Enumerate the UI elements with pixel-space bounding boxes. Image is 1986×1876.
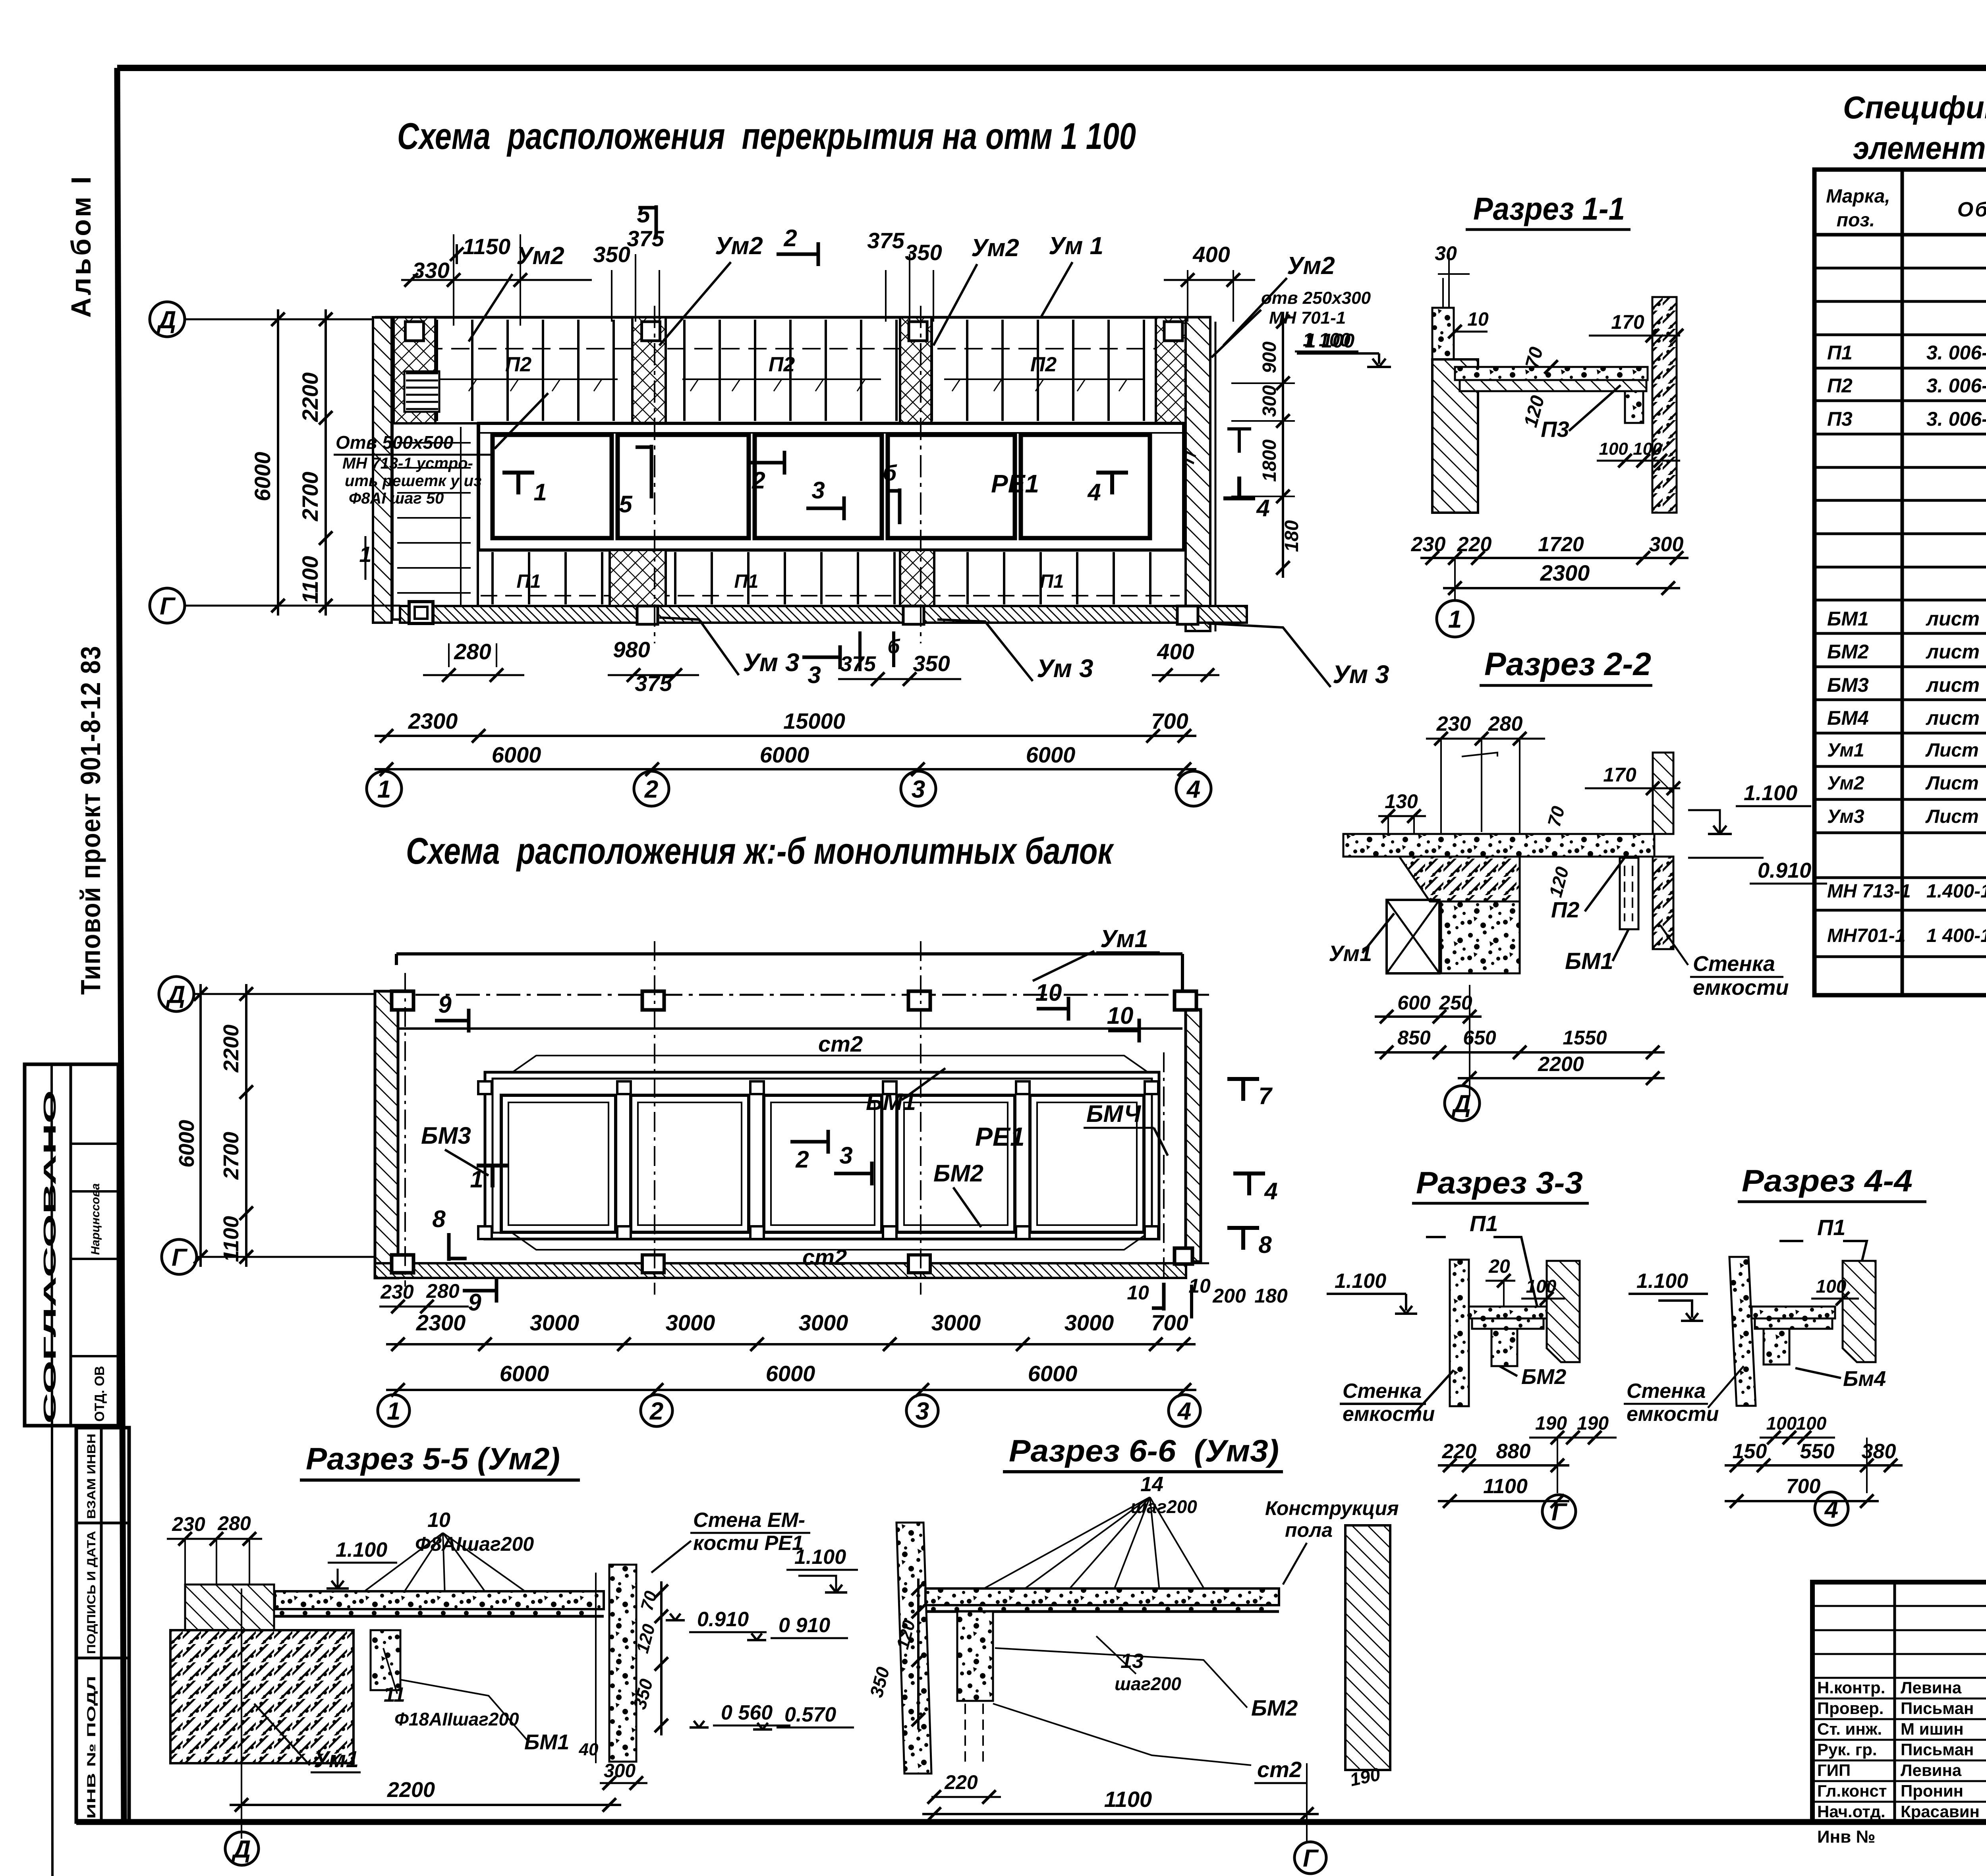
svg-text:Д: Д: [156, 306, 176, 334]
svg-text:180: 180: [1281, 520, 1302, 552]
svg-text:пола: пола: [1285, 1519, 1333, 1541]
svg-text:2700: 2700: [219, 1132, 243, 1180]
svg-text:350: 350: [905, 240, 942, 265]
svg-text:280: 280: [426, 1280, 460, 1302]
svg-text:14: 14: [1140, 1473, 1163, 1496]
svg-text:6000: 6000: [250, 452, 275, 502]
svg-text:емкости: емкости: [1693, 976, 1789, 1000]
svg-text:5: 5: [619, 491, 633, 517]
svg-text:БМ2: БМ2: [1521, 1365, 1566, 1389]
svg-text:Разрез 3-3: Разрез 3-3: [1416, 1165, 1583, 1200]
svg-text:ить решетк у из: ить решетк у из: [345, 472, 482, 490]
svg-text:10: 10: [1107, 1002, 1134, 1029]
svg-text:П2: П2: [769, 353, 795, 376]
svg-text:Г: Г: [160, 593, 176, 620]
svg-text:1.400-15, Вып.1.710- 24: 1.400-15, Вып.1.710- 24: [1926, 881, 1986, 902]
svg-text:П1: П1: [1039, 571, 1064, 592]
svg-text:150: 150: [1733, 1440, 1767, 1463]
svg-text:980: 980: [613, 637, 650, 662]
svg-text:8: 8: [432, 1206, 446, 1232]
svg-text:лист 47: лист 47: [1926, 641, 1986, 663]
svg-text:6000: 6000: [760, 742, 809, 767]
svg-text:2300: 2300: [408, 708, 458, 733]
svg-text:230: 230: [172, 1513, 205, 1535]
svg-text:375: 375: [840, 652, 876, 676]
svg-text:1100: 1100: [1104, 1787, 1152, 1812]
svg-text:300: 300: [1259, 385, 1280, 417]
svg-text:1800: 1800: [1259, 439, 1280, 482]
svg-text:2300: 2300: [416, 1310, 466, 1335]
svg-text:поз.: поз.: [1837, 210, 1875, 231]
svg-text:850: 850: [1397, 1027, 1431, 1049]
svg-text:Рук. гр.: Рук. гр.: [1817, 1740, 1877, 1759]
svg-text:1.100: 1.100: [794, 1546, 846, 1569]
svg-text:5: 5: [637, 201, 651, 228]
svg-text:Письман: Письман: [1901, 1740, 1974, 1759]
svg-text:БМ1: БМ1: [866, 1089, 916, 1115]
svg-text:300: 300: [1649, 533, 1684, 556]
svg-text:МН 713-1 устро-: МН 713-1 устро-: [342, 455, 473, 472]
svg-text:П1: П1: [734, 571, 758, 592]
svg-text:БМ4: БМ4: [1827, 707, 1869, 729]
svg-text:БМ2: БМ2: [933, 1160, 983, 1187]
svg-text:Бм4: Бм4: [1843, 1367, 1886, 1391]
svg-text:Стенка: Стенка: [1343, 1380, 1422, 1403]
svg-text:БМ3: БМ3: [1827, 674, 1869, 696]
svg-text:Ум3: Ум3: [1827, 806, 1864, 827]
svg-text:Ум1: Ум1: [1100, 925, 1148, 953]
svg-text:б: б: [883, 460, 897, 485]
svg-text:П1: П1: [1817, 1215, 1845, 1240]
svg-text:0 910: 0 910: [779, 1614, 830, 1637]
svg-text:3000: 3000: [666, 1310, 715, 1335]
svg-text:6000: 6000: [175, 1120, 199, 1168]
svg-text:Обозначение: Обозначение: [1957, 198, 1986, 221]
svg-text:ВЗАМ ИНВН: ВЗАМ ИНВН: [85, 1434, 98, 1519]
svg-text:220: 220: [1457, 533, 1492, 556]
svg-text:Ум2: Ум2: [715, 232, 763, 260]
svg-text:8: 8: [1258, 1231, 1272, 1258]
svg-text:4: 4: [1264, 1178, 1277, 1204]
svg-text:Пронин: Пронин: [1901, 1781, 1963, 1800]
svg-text:170: 170: [1611, 311, 1644, 333]
svg-text:Ум2: Ум2: [1287, 252, 1335, 280]
svg-text:130: 130: [1385, 790, 1418, 813]
svg-text:1550: 1550: [1563, 1027, 1607, 1049]
svg-text:2200: 2200: [219, 1025, 243, 1073]
svg-text:ГИП: ГИП: [1817, 1761, 1851, 1779]
svg-text:6000: 6000: [500, 1361, 549, 1386]
svg-text:1: 1: [533, 479, 547, 506]
svg-text:Схема расположения перекрыти: Схема расположения перекрытия на отм 1 1…: [397, 115, 1136, 157]
svg-text:Левина: Левина: [1901, 1761, 1962, 1779]
svg-text:10: 10: [1127, 1282, 1149, 1304]
svg-text:3: 3: [808, 662, 821, 688]
svg-text:Ум 3: Ум 3: [743, 648, 799, 677]
svg-text:БМ1: БМ1: [1827, 608, 1869, 630]
svg-text:Стенка: Стенка: [1627, 1380, 1706, 1403]
svg-text:280: 280: [1488, 712, 1523, 735]
svg-text:1100: 1100: [219, 1216, 243, 1262]
svg-text:Д: Д: [1451, 1090, 1471, 1117]
svg-text:Красавин: Красавин: [1901, 1802, 1980, 1821]
svg-text:ст2: ст2: [818, 1031, 863, 1056]
svg-text:6000: 6000: [766, 1361, 815, 1386]
svg-text:1.100: 1.100: [1335, 1270, 1386, 1293]
svg-text:9: 9: [438, 991, 452, 1018]
svg-text:650: 650: [1463, 1027, 1496, 1049]
svg-text:70: 70: [1544, 804, 1569, 829]
svg-text:Ум1: Ум1: [314, 1747, 359, 1772]
svg-text:1.100: 1.100: [1744, 781, 1797, 805]
svg-text:2300: 2300: [1540, 560, 1590, 585]
svg-text:П2: П2: [1551, 897, 1579, 922]
svg-text:ОТД. ОВ: ОТД. ОВ: [92, 1366, 107, 1422]
svg-text:МН701-1: МН701-1: [1827, 925, 1905, 946]
svg-text:БМ2: БМ2: [1827, 641, 1869, 663]
svg-text:40: 40: [579, 1740, 599, 1759]
svg-text:3000: 3000: [530, 1310, 580, 1335]
svg-text:Ум2: Ум2: [516, 242, 564, 270]
svg-text:Стена ЕМ-: Стена ЕМ-: [693, 1509, 805, 1532]
svg-text:Н.контр.: Н.контр.: [1817, 1678, 1885, 1697]
svg-text:БМ1: БМ1: [1565, 948, 1613, 974]
svg-text:1100: 1100: [1483, 1475, 1528, 1498]
svg-text:180: 180: [1254, 1285, 1288, 1307]
svg-text:ПОДПИСЬ И ДАТА: ПОДПИСЬ И ДАТА: [85, 1531, 98, 1654]
svg-text:4: 4: [1087, 479, 1101, 506]
svg-text:10: 10: [1467, 309, 1489, 330]
svg-text:кости РЕ1: кости РЕ1: [693, 1532, 804, 1555]
svg-text:9: 9: [468, 1289, 481, 1316]
svg-text:1: 1: [387, 1397, 400, 1425]
svg-text:15000: 15000: [783, 708, 845, 733]
svg-text:230: 230: [1436, 712, 1471, 735]
svg-text:Ум2: Ум2: [971, 234, 1019, 262]
svg-text:330: 330: [412, 258, 449, 283]
svg-text:БМ1: БМ1: [524, 1730, 569, 1754]
svg-text:880: 880: [1496, 1440, 1531, 1463]
svg-text:Нарцнссова: Нарцнссова: [89, 1183, 102, 1255]
svg-text:100: 100: [1796, 1413, 1827, 1434]
svg-text:220: 220: [944, 1771, 978, 1793]
svg-text:20: 20: [1488, 1256, 1510, 1277]
svg-text:1100: 1100: [298, 556, 323, 604]
svg-text:П2: П2: [1827, 374, 1853, 397]
svg-text:Ф8АI шаг 50: Ф8АI шаг 50: [349, 490, 444, 507]
svg-text:1150: 1150: [463, 234, 510, 259]
svg-text:6000: 6000: [492, 742, 541, 767]
svg-text:0 560: 0 560: [721, 1701, 773, 1724]
svg-text:лист 47: лист 47: [1926, 674, 1986, 696]
svg-text:2200: 2200: [1538, 1053, 1584, 1076]
svg-text:РЕ1: РЕ1: [975, 1122, 1025, 1151]
svg-text:Ум 3: Ум 3: [1333, 660, 1389, 689]
svg-text:Инв №: Инв №: [1817, 1827, 1876, 1847]
svg-text:Разрез 2-2: Разрез 2-2: [1484, 646, 1651, 682]
svg-text:4: 4: [1256, 495, 1269, 521]
svg-text:100: 100: [1816, 1276, 1847, 1297]
svg-text:Ум 1: Ум 1: [1049, 232, 1103, 260]
svg-text:Нач.отд.: Нач.отд.: [1817, 1802, 1886, 1821]
svg-text:Ф18АIIшаг200: Ф18АIIшаг200: [394, 1709, 519, 1729]
svg-text:1 400-15, Вып.1 710-01: 1 400-15, Вып.1 710-01: [1926, 925, 1986, 946]
svg-text:Ум2: Ум2: [1827, 773, 1864, 794]
svg-text:1.100: 1.100: [1636, 1270, 1688, 1293]
svg-text:элементов к перекрытию на: элементов к перекрытию на отм. 1.100: [1853, 130, 1986, 166]
svg-text:220: 220: [1442, 1440, 1477, 1463]
svg-text:280: 280: [454, 639, 491, 664]
svg-text:Письман: Письман: [1901, 1699, 1974, 1718]
svg-text:Разрез 6-6 (Ум3): Разрез 6-6 (Ум3): [1009, 1433, 1279, 1468]
svg-text:4: 4: [1186, 776, 1200, 803]
svg-text:350: 350: [865, 1665, 893, 1700]
svg-text:250: 250: [1439, 992, 1472, 1014]
svg-text:190: 190: [1577, 1413, 1609, 1434]
svg-text:170: 170: [1603, 764, 1636, 786]
svg-text:3. 006-2 Вып. II-2: 3. 006-2 Вып. II-2: [1926, 342, 1986, 364]
svg-text:3: 3: [916, 1397, 929, 1425]
svg-text:П1: П1: [1827, 342, 1853, 364]
svg-text:3000: 3000: [1064, 1310, 1114, 1335]
svg-text:ИНВ № ПОДЛ: ИНВ № ПОДЛ: [85, 1676, 98, 1819]
svg-text:Лист 45: Лист 45: [1925, 806, 1986, 827]
svg-text:700: 700: [1786, 1475, 1821, 1498]
svg-text:М ишин: М ишин: [1901, 1720, 1964, 1738]
svg-text:3000: 3000: [799, 1310, 848, 1335]
svg-text:375: 375: [867, 228, 904, 253]
svg-text:200: 200: [1212, 1285, 1246, 1307]
svg-text:емкости: емкости: [1627, 1403, 1719, 1426]
svg-text:2200: 2200: [298, 372, 323, 423]
svg-text:Провер.: Провер.: [1817, 1699, 1884, 1718]
svg-text:Альбом I: Альбом I: [66, 174, 97, 318]
svg-text:Лист 45: Лист 45: [1925, 773, 1986, 794]
svg-text:350: 350: [913, 651, 950, 676]
svg-text:230: 230: [1411, 533, 1446, 556]
svg-text:1.100: 1.100: [336, 1538, 387, 1561]
svg-text:БМ2: БМ2: [1251, 1695, 1298, 1720]
svg-text:0.570: 0.570: [784, 1703, 836, 1726]
svg-text:0.910: 0.910: [1758, 859, 1811, 882]
svg-text:2700: 2700: [298, 472, 323, 522]
svg-text:3: 3: [912, 776, 925, 803]
svg-text:280: 280: [217, 1512, 251, 1534]
svg-text:6000: 6000: [1028, 1361, 1078, 1386]
svg-text:700: 700: [1151, 708, 1188, 733]
svg-text:Ум1: Ум1: [1329, 941, 1372, 966]
svg-text:2: 2: [783, 225, 797, 251]
svg-text:отв 250х300: отв 250х300: [1261, 288, 1371, 308]
svg-text:РЕ1: РЕ1: [991, 469, 1039, 498]
svg-text:3000: 3000: [931, 1310, 981, 1335]
svg-text:300: 300: [604, 1760, 636, 1781]
svg-text:700: 700: [1151, 1310, 1188, 1335]
svg-text:70: 70: [637, 1589, 661, 1613]
svg-text:Конструкция: Конструкция: [1265, 1497, 1399, 1519]
svg-text:400: 400: [1157, 639, 1194, 664]
svg-text:П1: П1: [1470, 1211, 1498, 1236]
svg-text:Ст. инж.: Ст. инж.: [1817, 1720, 1882, 1738]
svg-text:Г: Г: [172, 1244, 188, 1271]
svg-text:1720: 1720: [1538, 533, 1584, 556]
svg-text:БМ3: БМ3: [421, 1122, 471, 1149]
svg-text:ст2: ст2: [802, 1245, 847, 1270]
svg-text:Ум 3: Ум 3: [1037, 654, 1093, 683]
svg-text:Типовой проект 901-8-12 83: Типовой проект 901-8-12 83: [75, 645, 106, 995]
svg-text:БМЧ: БМЧ: [1086, 1100, 1142, 1127]
svg-text:10: 10: [1036, 979, 1062, 1006]
svg-text:П3: П3: [1827, 408, 1853, 430]
svg-text:4: 4: [1824, 1496, 1838, 1523]
svg-text:4: 4: [1177, 1397, 1191, 1425]
svg-text:2200: 2200: [387, 1778, 435, 1802]
svg-text:7: 7: [1258, 1083, 1273, 1109]
svg-text:30: 30: [1435, 242, 1457, 264]
svg-text:Г: Г: [1303, 1845, 1319, 1872]
svg-text:шаг200: шаг200: [1115, 1673, 1181, 1694]
svg-text:6000: 6000: [1026, 742, 1076, 767]
svg-text:П1: П1: [516, 571, 541, 592]
svg-text:350: 350: [593, 242, 630, 267]
svg-text:600: 600: [1397, 992, 1431, 1014]
svg-text:Разрез 1-1: Разрез 1-1: [1473, 191, 1625, 226]
svg-text:900: 900: [1259, 342, 1280, 373]
svg-text:Д: Д: [166, 981, 185, 1008]
svg-text:Стенка: Стенка: [1693, 952, 1775, 976]
svg-text:2: 2: [644, 776, 658, 803]
svg-text:Спецификация сборных и моно: Спецификация сборных и монолитных ж. б: [1843, 90, 1986, 125]
svg-text:П3: П3: [1541, 417, 1569, 442]
svg-text:1 100: 1 100: [1305, 330, 1354, 352]
svg-text:3: 3: [839, 1142, 852, 1169]
svg-text:1: 1: [1448, 606, 1462, 633]
svg-text:П2: П2: [1030, 353, 1057, 376]
svg-text:2: 2: [795, 1146, 809, 1173]
svg-text:375: 375: [627, 226, 664, 251]
svg-text:100: 100: [1766, 1413, 1797, 1434]
svg-text:Гл.конст: Гл.конст: [1817, 1781, 1887, 1800]
svg-text:Ф8АIшаг200: Ф8АIшаг200: [415, 1533, 534, 1555]
svg-text:Схема расположения ж:-б монол: Схема расположения ж:-б монолитных балок: [406, 830, 1115, 872]
svg-text:Г: Г: [1551, 1498, 1568, 1526]
svg-text:230: 230: [380, 1281, 414, 1303]
svg-text:120: 120: [1545, 865, 1573, 899]
svg-text:3. 006-2 Вып. II-2: 3. 006-2 Вып. II-2: [1926, 374, 1986, 397]
svg-text:Д: Д: [231, 1835, 251, 1863]
svg-text:3: 3: [811, 477, 825, 504]
svg-text:1: 1: [377, 776, 391, 803]
svg-text:10: 10: [427, 1509, 450, 1532]
svg-text:550: 550: [1800, 1440, 1835, 1463]
svg-text:Лист 46: Лист 46: [1925, 740, 1986, 761]
svg-text:0.910: 0.910: [697, 1608, 749, 1631]
svg-text:СОГЛАСОВАНО: СОГЛАСОВАНО: [40, 1090, 60, 1424]
svg-text:лист 47: лист 47: [1926, 608, 1986, 630]
svg-text:400: 400: [1192, 242, 1230, 267]
svg-text:Левина: Левина: [1901, 1678, 1962, 1697]
svg-text:Марка,: Марка,: [1826, 186, 1890, 207]
svg-text:П2: П2: [505, 353, 531, 376]
svg-text:2: 2: [752, 467, 765, 494]
svg-text:3. 006-2 Вып. II-2: 3. 006-2 Вып. II-2: [1926, 408, 1986, 430]
svg-text:Разрез 5-5 (Ум2): Разрез 5-5 (Ум2): [306, 1441, 560, 1476]
svg-text:Ум1: Ум1: [1827, 740, 1864, 761]
svg-text:Отв 500х500: Отв 500х500: [336, 432, 454, 453]
svg-text:Разрез 4-4: Разрез 4-4: [1742, 1163, 1913, 1198]
svg-text:МН 713-1: МН 713-1: [1827, 881, 1911, 902]
svg-text:ст2: ст2: [1257, 1757, 1302, 1782]
svg-text:2: 2: [649, 1397, 663, 1425]
svg-text:лист 47: лист 47: [1926, 707, 1986, 729]
